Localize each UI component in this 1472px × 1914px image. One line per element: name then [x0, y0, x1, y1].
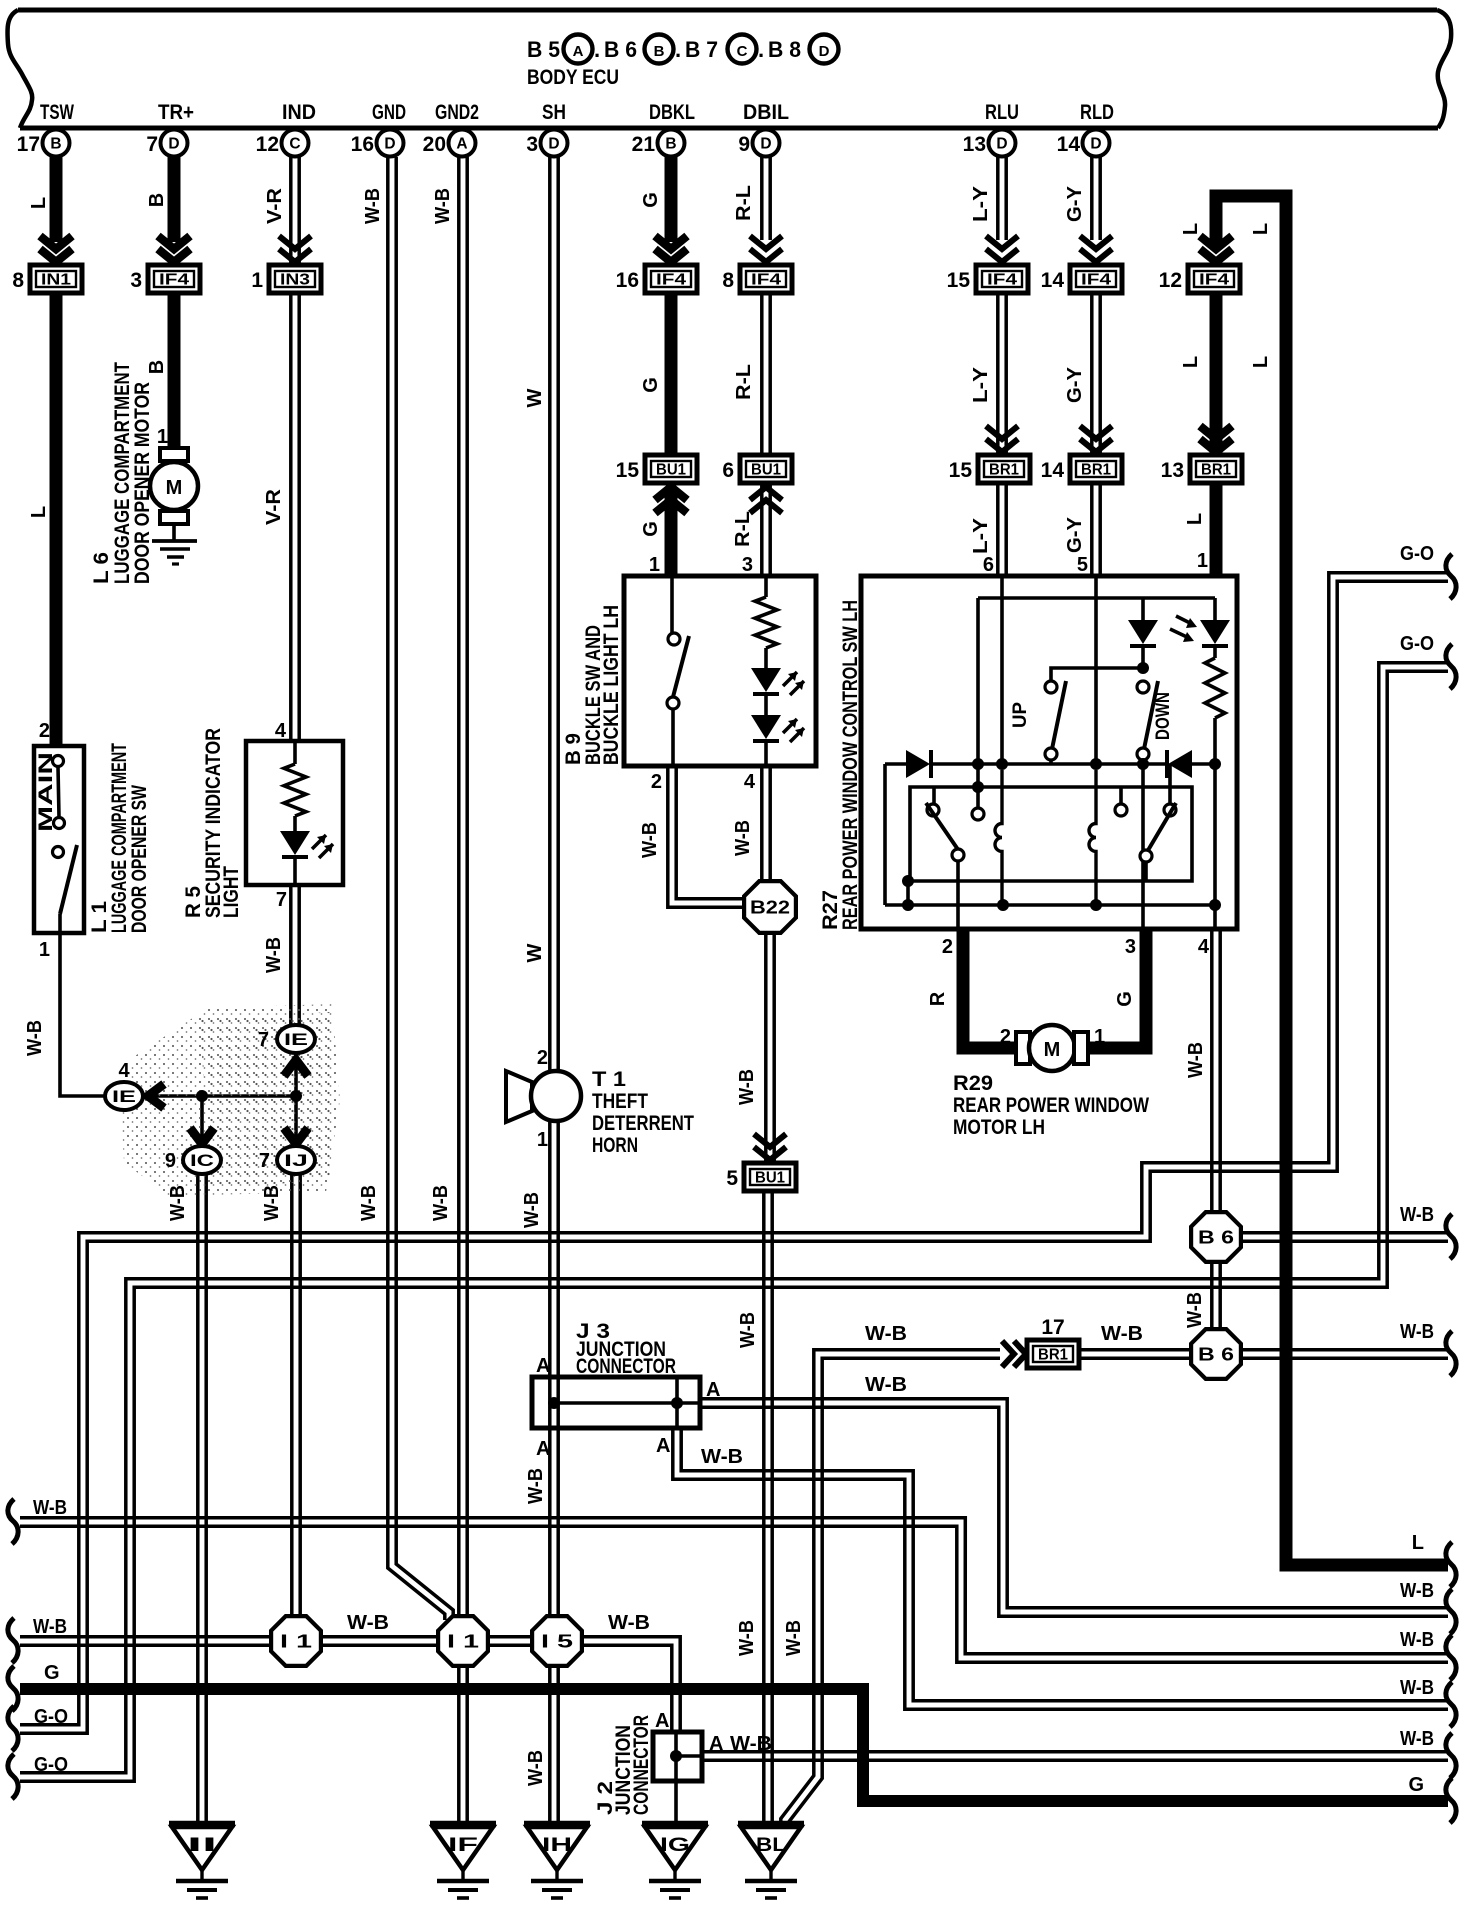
buckle switch inside B9 [670, 578, 674, 633]
svg-text:M: M [1044, 1039, 1061, 1061]
junction dot at IJ branch [290, 1090, 302, 1102]
right exit W-B from J3 bottom [1446, 1682, 1456, 1727]
arrow into IF4 RLD [1080, 236, 1112, 249]
svg-text:W-B: W-B [1400, 1204, 1434, 1226]
svg-text:W-B: W-B [732, 820, 754, 856]
svg-text:IF: IF [448, 1835, 478, 1856]
switch L1 luggage compartment door opener SW [34, 746, 84, 933]
svg-text:6: 6 [722, 459, 734, 482]
svg-text:W-B: W-B [1400, 1321, 1434, 1343]
R27 DOWN switch [1137, 662, 1149, 674]
arrow into BU1 5 [754, 1134, 786, 1147]
svg-text:.: . [675, 37, 681, 62]
wire L hook from IF4 pin12 to long vertical and L right exit [1216, 196, 1448, 1565]
svg-text:A: A [536, 1438, 550, 1460]
svg-text:B: B [50, 136, 61, 153]
wire W-B I1 to I1 junction link [20, 1643, 554, 1647]
svg-text:M: M [166, 477, 183, 499]
right exit W-B from B6 [1446, 1214, 1456, 1259]
svg-text:BODY ECU: BODY ECU [527, 66, 619, 89]
ground IF [430, 1821, 496, 1828]
svg-text:IF4: IF4 [987, 272, 1017, 289]
wire G IF4 to BU1 [665, 293, 678, 455]
svg-text:R-L: R-L [732, 511, 754, 547]
arrow into IN1 [40, 236, 72, 249]
wire L IN1 to luggage door opener SW pin2 [50, 293, 63, 746]
svg-text:W-B: W-B [730, 1733, 772, 1755]
svg-text:W-B: W-B [362, 188, 384, 224]
wire W-B I5 to J2 junction connector [554, 1645, 672, 1756]
svg-text:BR1: BR1 [989, 462, 1019, 479]
svg-text:A: A [456, 136, 467, 153]
svg-text:W-B: W-B [639, 822, 661, 858]
svg-text:IF4: IF4 [656, 272, 686, 289]
svg-text:D: D [1090, 136, 1101, 153]
wire W-B B22 to BU1 pin5 [764, 932, 768, 1162]
arrow into IE pin7 [284, 1060, 308, 1076]
svg-text:W-B: W-B [1101, 1323, 1143, 1345]
connector IC pin9 [183, 1146, 221, 1174]
svg-text:L 6: L 6 [90, 552, 113, 584]
svg-text:TR+: TR+ [158, 101, 194, 124]
svg-text:15: 15 [947, 269, 971, 292]
svg-text:L: L [28, 506, 50, 518]
wire L-Y BR1 to power window SW pin6 [996, 483, 1000, 576]
svg-text:7: 7 [259, 1150, 270, 1172]
wire W-B BR1 17 to lower B6 [1079, 1356, 1192, 1360]
svg-text:2: 2 [1000, 1026, 1011, 1048]
svg-text:1: 1 [1197, 550, 1208, 572]
svg-text:UP: UP [1010, 702, 1031, 728]
svg-text:CONNECTOR: CONNECTOR [576, 1355, 676, 1378]
svg-text:W-B: W-B [525, 1750, 547, 1786]
svg-text:G: G [1408, 1774, 1424, 1796]
wire L TSW pin17 to IN1 [50, 152, 63, 242]
wire W-B GND pin16 down with diagonal into I1 [388, 157, 445, 1620]
svg-text:3: 3 [742, 554, 753, 576]
svg-text:B: B [146, 360, 168, 374]
svg-text:R-L: R-L [733, 364, 755, 400]
arrow into IF4 RLU [986, 236, 1018, 249]
R27 mid rail with diodes [885, 762, 906, 766]
svg-text:G: G [640, 521, 662, 537]
right exit W-B via corner [1446, 1635, 1456, 1680]
svg-text:T 1: T 1 [592, 1068, 626, 1091]
svg-text:BR1: BR1 [1081, 462, 1111, 479]
connector BU1 pin5 [744, 1163, 796, 1191]
wire L IF4 12 to BR1 13 [1210, 293, 1223, 453]
R27 top rail [978, 596, 1215, 600]
connector I1 left [271, 1616, 321, 1666]
svg-text:REAR POWER WINDOW: REAR POWER WINDOW [953, 1094, 1149, 1117]
wire segment IE pin7 to junction [294, 1053, 298, 1096]
svg-text:G-Y: G-Y [1064, 366, 1086, 403]
svg-text:G: G [44, 1662, 60, 1684]
svg-text:13: 13 [963, 133, 986, 156]
svg-text:D: D [996, 136, 1007, 153]
svg-text:A: A [706, 1379, 720, 1401]
right exit G-O lower [1446, 644, 1456, 689]
connector IF4 pin12 [1188, 265, 1240, 293]
arrow into BR1 15 [986, 426, 1018, 439]
svg-text:4: 4 [1198, 936, 1210, 958]
svg-text:BU1: BU1 [755, 1170, 785, 1187]
wire G-Y RLD pin14 down to IF4 [1090, 157, 1094, 240]
svg-text:W-B: W-B [347, 1612, 389, 1634]
R27 right relay contact [1119, 787, 1123, 803]
svg-text:1: 1 [537, 1129, 548, 1151]
svg-text:W-B: W-B [1400, 1728, 1434, 1750]
svg-text:7: 7 [276, 889, 287, 911]
wire V-R IND pin12 down to security indicator light [289, 157, 293, 745]
connector BU1 pin6 [740, 455, 792, 483]
svg-text:B 8: B 8 [768, 37, 801, 62]
wire W-B from J2 pin A to right exit [702, 1758, 1448, 1762]
svg-text:W-B: W-B [432, 188, 454, 224]
svg-text:.: . [758, 37, 764, 62]
svg-text:L: L [28, 197, 50, 209]
svg-text:RLU: RLU [985, 101, 1019, 124]
svg-text:2: 2 [651, 771, 662, 793]
wire L BR1 13 to power window SW pin1 [1210, 483, 1223, 576]
svg-text:1: 1 [251, 269, 263, 292]
svg-text:I 1: I 1 [280, 1631, 312, 1652]
svg-text:W: W [524, 388, 546, 407]
R27 coil 1 [995, 770, 1002, 905]
left exit G-O upper [8, 1706, 18, 1751]
svg-text:B 6: B 6 [604, 37, 637, 62]
svg-text:L: L [1250, 223, 1272, 235]
connector B22 [744, 881, 796, 933]
wire W-B from J3 bottom pin A to right exit [673, 1428, 1448, 1709]
svg-text:W-B: W-B [167, 1185, 189, 1221]
R27 left relay contact [972, 781, 984, 793]
svg-text:BU1: BU1 [751, 462, 781, 479]
arrow into BU1 6 from buckle light [750, 500, 782, 513]
svg-text:B 6: B 6 [1198, 1227, 1234, 1248]
svg-text:L-Y: L-Y [970, 366, 992, 403]
arrow into BR1 14 [1080, 426, 1112, 439]
svg-text:W-B: W-B [24, 1020, 46, 1056]
wire W-B left exit to right exit via corner x961 [20, 1526, 1448, 1662]
svg-text:R: R [927, 991, 949, 1006]
svg-text:R-L: R-L [733, 185, 755, 221]
horn T1 theft deterrent horn [506, 1071, 532, 1122]
svg-text:V-R: V-R [263, 488, 285, 525]
right exit G-O upper [1446, 554, 1456, 599]
wire L-Y IF4 to BR1 [996, 293, 1000, 453]
svg-text:12: 12 [256, 133, 279, 156]
ground for motor L6 [152, 539, 197, 543]
svg-text:BUCKLE LIGHT LH: BUCKLE LIGHT LH [600, 605, 623, 765]
connector IE pin7 [277, 1025, 315, 1053]
svg-text:15: 15 [949, 459, 973, 482]
svg-text:1: 1 [649, 554, 660, 576]
right exit G [1446, 1778, 1456, 1823]
svg-text:W-B: W-B [608, 1612, 650, 1634]
R27 LED light arrows [1176, 616, 1192, 624]
connector I5 [532, 1616, 582, 1666]
wire G-O net 1 (right exit to left exit) [20, 573, 1448, 1725]
motor R29 rear power window motor LH [1016, 1032, 1030, 1064]
R27 pin5 wire to coil [1094, 576, 1098, 764]
right exit W-B from lower B6 [1446, 1331, 1456, 1376]
connector IJ pin7 [277, 1146, 315, 1174]
wire G-Y BR1 to power window SW pin5 [1090, 483, 1094, 576]
svg-text:15: 15 [616, 459, 640, 482]
svg-text:W-B: W-B [358, 1185, 380, 1221]
svg-text:W-B: W-B [1400, 1629, 1434, 1651]
svg-text:W-B: W-B [521, 1192, 543, 1228]
svg-text:3: 3 [130, 269, 142, 292]
wire G power window motor to SW pin3 [1088, 929, 1146, 1048]
svg-text:BU1: BU1 [656, 462, 686, 479]
svg-text:9: 9 [165, 1150, 176, 1172]
svg-text:6: 6 [983, 554, 994, 576]
arrow into IF4 DBKL [655, 236, 687, 249]
connector IF4 pin15 [976, 265, 1028, 293]
svg-text:14: 14 [1057, 133, 1081, 156]
wire W-B from J3 right pin A to right exit [700, 1407, 1448, 1616]
svg-text:D: D [760, 136, 771, 153]
svg-text:W-B: W-B [261, 1185, 283, 1221]
svg-text:B22: B22 [750, 897, 790, 918]
ground IG [642, 1821, 708, 1828]
svg-text:I 5: I 5 [541, 1631, 573, 1652]
svg-text:LIGHT: LIGHT [220, 866, 243, 918]
svg-text:B 7: B 7 [685, 37, 718, 62]
R27 LED1 [1141, 598, 1145, 620]
svg-text:IE: IE [112, 1088, 136, 1106]
svg-text:DBKL: DBKL [649, 101, 695, 124]
wire W-B security indicator light pin7 down to IE [289, 885, 293, 1026]
svg-text:1: 1 [157, 426, 168, 448]
switch R27 rear power window control SW LH box [861, 576, 1237, 929]
svg-text:7: 7 [146, 133, 158, 156]
svg-text:GND: GND [372, 101, 406, 124]
svg-text:GND2: GND2 [435, 101, 479, 124]
wire R power window SW pin2 to motor [963, 929, 1016, 1048]
connector B6 lower [1191, 1329, 1241, 1379]
svg-text:IE: IE [284, 1031, 308, 1049]
right exit W-B from J3 right [1446, 1589, 1456, 1634]
svg-text:IG: IG [660, 1835, 690, 1856]
wire W-B IE junction horizontal segment [145, 1094, 296, 1098]
connector IN3 pin1 [269, 265, 321, 293]
svg-text:W-B: W-B [1184, 1292, 1206, 1328]
svg-text:13: 13 [1161, 459, 1184, 482]
connector BR1 pin13 [1190, 455, 1242, 483]
arrow into IE pin4 [148, 1084, 164, 1108]
svg-text:W-B: W-B [33, 1497, 67, 1519]
svg-text:G-O: G-O [34, 1706, 68, 1728]
svg-text:IF4: IF4 [159, 272, 189, 289]
svg-text:IN1: IN1 [41, 272, 71, 289]
svg-text:W-B: W-B [1400, 1580, 1434, 1602]
right exit W-B from J2 [1446, 1733, 1456, 1778]
svg-text:L: L [1250, 356, 1272, 368]
svg-text:3: 3 [1125, 936, 1136, 958]
arrow into IN3 [279, 236, 311, 249]
arrow into BR1 13 [1200, 426, 1232, 439]
wire from J2 to IG ground [674, 1781, 678, 1823]
svg-text:D: D [384, 136, 395, 153]
wire B IF4 to luggage door opener motor pin1 [168, 293, 181, 450]
svg-text:W-B: W-B [33, 1616, 67, 1638]
svg-text:B: B [654, 43, 665, 60]
svg-text:2: 2 [537, 1047, 548, 1069]
switch-lamp B9 buckle SW and buckle light LH box [624, 576, 816, 766]
wire W-B BU1 pin5 down to BL ground [762, 1191, 766, 1823]
wire R-L DBIL pin9 down to IF4 [760, 157, 764, 240]
svg-text:W-B: W-B [701, 1446, 743, 1468]
svg-text:L: L [1412, 1532, 1424, 1554]
svg-text:II: II [187, 1835, 217, 1856]
svg-text:DOWN: DOWN [1153, 692, 1174, 740]
connector BR1 pin14 [1070, 455, 1122, 483]
svg-text:IJ: IJ [284, 1152, 308, 1170]
svg-text:W-B: W-B [263, 937, 285, 973]
BODY ECU connector band outline [18, 8, 1437, 13]
svg-text:5: 5 [726, 1167, 738, 1190]
wire W-B lower B6 to right exit [1242, 1356, 1448, 1360]
connector I1 right [438, 1616, 488, 1666]
svg-text:MOTOR LH: MOTOR LH [953, 1116, 1045, 1139]
wire R-L IF4 to BU1 [760, 293, 764, 455]
wire W-B from BR1 pin 17 to BL ground (with diagonal) [781, 1350, 1000, 1825]
svg-text:21: 21 [632, 133, 656, 156]
connector B6 upper [1191, 1212, 1241, 1262]
connector IF4 pin16 [645, 265, 697, 293]
wire L-Y RLU pin13 down to IF4 [996, 157, 1000, 240]
wire W-B from IJ connector down to I1 [290, 1174, 294, 1640]
svg-text:L: L [1180, 223, 1202, 235]
wire G left exit to bottom right exit [20, 1689, 1448, 1801]
svg-text:R29: R29 [953, 1072, 993, 1095]
wire W-B B6 to B6 link [1210, 1261, 1214, 1330]
svg-text:W-B: W-B [736, 1620, 758, 1656]
wire W-B buckle SW pin2 to B22 [668, 765, 745, 907]
arrow into IF4 DBIL [750, 236, 782, 249]
arrow into IF4 TR+ [158, 236, 190, 249]
ground II [169, 1821, 235, 1828]
svg-text:L-Y: L-Y [970, 185, 992, 222]
svg-text:L: L [1184, 513, 1206, 525]
wire G-Y IF4 to BR1 [1090, 293, 1094, 453]
svg-text:DBIL: DBIL [743, 101, 789, 124]
connector IF4 pin14 [1070, 265, 1122, 293]
wire W-B luggage door opener SW pin1 to IE [60, 933, 108, 1096]
wire W-B GND2 pin20 down to I1 and IF ground [457, 157, 461, 1823]
svg-text:C: C [289, 136, 300, 153]
wire W-B B6 to right exit [1242, 1239, 1448, 1243]
svg-text:B: B [665, 136, 676, 153]
R27 bottom rail [883, 764, 887, 905]
svg-text:2: 2 [39, 720, 50, 742]
svg-text:G-O: G-O [34, 1754, 68, 1776]
svg-text:IC: IC [190, 1152, 214, 1170]
arrow into IF4 12 [1200, 236, 1232, 249]
svg-text:8: 8 [722, 269, 734, 292]
svg-text:A: A [573, 43, 584, 60]
R27 UP switch [1051, 668, 1143, 681]
connector BR1 pin15 [978, 455, 1030, 483]
svg-text:IF4: IF4 [751, 272, 781, 289]
svg-text:3: 3 [526, 133, 538, 156]
svg-text:C: C [737, 43, 748, 60]
R27 LED2 with resistor [1213, 598, 1217, 620]
svg-text:G-O: G-O [1400, 633, 1434, 655]
wire W-B buckle SW pin4 to B22 [760, 765, 764, 885]
wire G BU1 to buckle SW pin1 [665, 487, 678, 576]
svg-text:BR1: BR1 [1038, 1347, 1068, 1364]
svg-text:TSW: TSW [40, 101, 74, 124]
svg-text:4: 4 [275, 720, 287, 742]
svg-text:D: D [168, 136, 179, 153]
wire W-B power window SW pin4 to B6 [1210, 929, 1214, 1213]
svg-text:A: A [655, 1710, 669, 1732]
ground IH [524, 1821, 590, 1828]
svg-text:G: G [640, 192, 662, 208]
svg-text:REAR POWER WINDOW CONTROL SW L: REAR POWER WINDOW CONTROL SW LH [839, 600, 862, 930]
svg-text:.: . [594, 37, 600, 62]
svg-text:B: B [146, 193, 168, 207]
svg-text:W-B: W-B [525, 1468, 547, 1504]
wire G DBKL pin21 to IF4 [665, 152, 678, 242]
svg-text:V-R: V-R [264, 187, 286, 224]
connector IF4 pin8 [740, 265, 792, 293]
left exit G [8, 1666, 18, 1711]
svg-text:L: L [1180, 356, 1202, 368]
svg-text:17: 17 [17, 133, 40, 156]
svg-text:4: 4 [118, 1060, 130, 1082]
svg-text:17: 17 [1041, 1316, 1064, 1339]
svg-text:IF4: IF4 [1081, 272, 1111, 289]
svg-text:B 6: B 6 [1198, 1344, 1234, 1365]
junction connector J2 [653, 1732, 702, 1781]
left exit W-B lower [8, 1618, 18, 1663]
lamp R5 security indicator light [246, 741, 343, 885]
arrow into IC pin9 [190, 1128, 214, 1144]
svg-text:DOOR OPENER SW: DOOR OPENER SW [128, 785, 151, 933]
R27 pin6 wire to coil [1000, 576, 1004, 764]
wire B TR+ pin7 to IF4 [168, 152, 181, 242]
svg-text:20: 20 [423, 133, 446, 156]
svg-text:BR1: BR1 [1201, 462, 1231, 479]
svg-text:DOOR OPENER MOTOR: DOOR OPENER MOTOR [131, 382, 154, 584]
stipple shading around IE/IC/IJ connectors [120, 1004, 340, 1196]
junction connector J3 [532, 1377, 700, 1428]
svg-text:L-Y: L-Y [970, 517, 992, 554]
svg-text:BL: BL [756, 1835, 786, 1856]
svg-text:16: 16 [351, 133, 374, 156]
connector BR1 pin17 [1027, 1340, 1079, 1368]
svg-text:16: 16 [616, 269, 639, 292]
svg-text:G: G [640, 377, 662, 393]
svg-text:A: A [709, 1733, 723, 1755]
svg-text:W-B: W-B [737, 1312, 759, 1348]
svg-text:W-B: W-B [1185, 1042, 1207, 1078]
R27 coil 2 [1089, 770, 1096, 905]
svg-text:A: A [656, 1435, 670, 1457]
left exit W-B upper [8, 1499, 18, 1544]
svg-text:IN3: IN3 [280, 272, 310, 289]
left exit G-O lower [8, 1754, 18, 1799]
svg-text:14: 14 [1041, 459, 1065, 482]
svg-text:SH: SH [542, 101, 566, 124]
right exit L [1446, 1542, 1456, 1587]
wire W-B from IC connector down to II ground [196, 1174, 200, 1823]
